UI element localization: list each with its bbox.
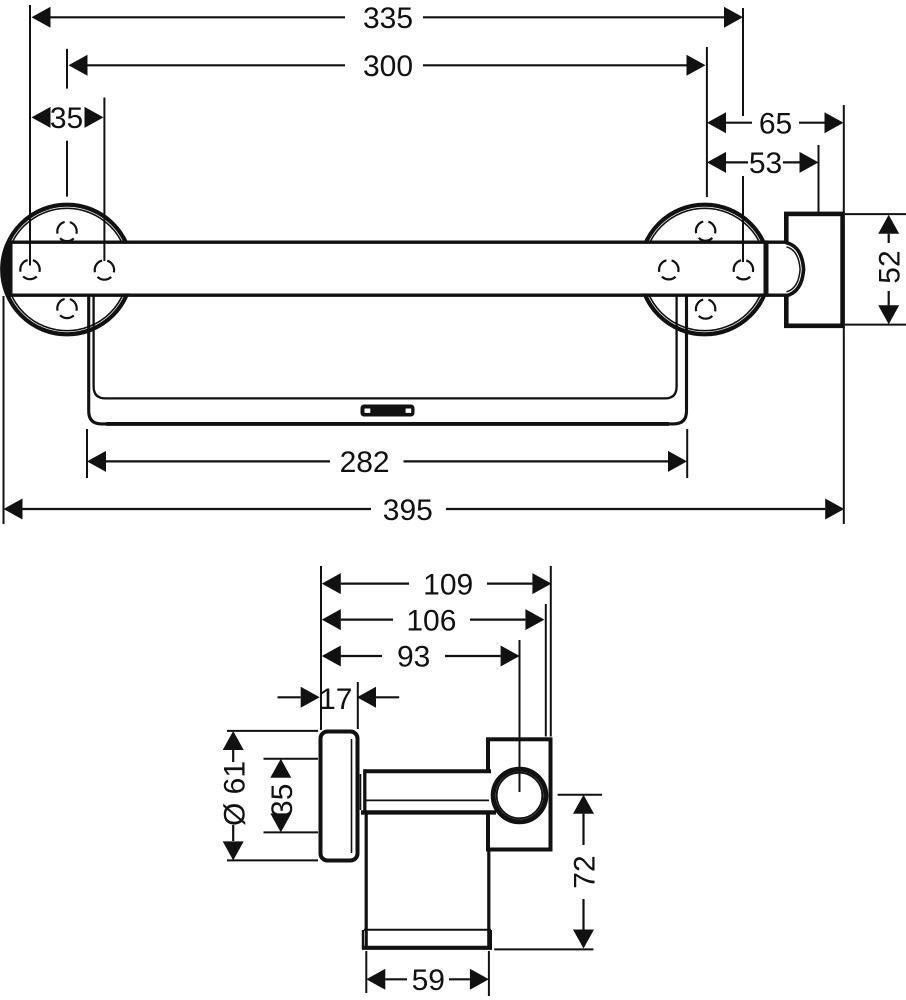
right flange screw holes [659, 221, 753, 318]
dimension 52 (vertical) [873, 215, 906, 324]
dome joint on wall plate [786, 243, 804, 297]
svg-text:282: 282 [340, 446, 390, 479]
dimension 53 [707, 147, 819, 180]
flange disc side view [321, 732, 358, 861]
svg-text:65: 65 [759, 107, 792, 140]
dimension 109 [322, 568, 552, 601]
dimension 395 [4, 494, 845, 527]
svg-text:395: 395 [383, 494, 433, 527]
svg-text:106: 106 [406, 604, 456, 637]
left wall flange [2, 205, 132, 335]
svg-text:335: 335 [363, 2, 413, 35]
svg-text:52: 52 [873, 250, 906, 283]
support tube side view [361, 769, 497, 814]
grab bar body [1, 241, 766, 297]
dimension 17 [278, 683, 400, 716]
disc-tube stem line [360, 774, 362, 810]
bar cross-section ring [493, 769, 546, 822]
dimension 35 (hole spacing) [32, 102, 104, 135]
dimension 300 [69, 50, 706, 83]
dimension 335 [32, 2, 744, 35]
bracket wall plate side view [488, 739, 551, 849]
svg-text:59: 59 [412, 964, 445, 997]
svg-text:35: 35 [266, 784, 299, 817]
extension lines side view [227, 566, 602, 996]
dimension 35 (side) [266, 759, 299, 833]
svg-text:300: 300 [363, 50, 413, 83]
dimension 65 [707, 107, 844, 140]
left flange screw holes [20, 222, 114, 318]
dimension 72 [569, 795, 602, 949]
rail clip plate [361, 405, 415, 417]
dimension 59 [366, 964, 489, 997]
svg-text:35: 35 [50, 102, 83, 135]
svg-text:72: 72 [569, 855, 602, 888]
dimension 282 [87, 446, 687, 479]
dimension diameter 61 [219, 731, 252, 860]
wall plate (52x52) [786, 214, 842, 326]
towel rail outer edge [89, 297, 110, 424]
bar neck at right end [764, 244, 786, 293]
dimension 106 [322, 604, 545, 637]
extension lines top view [4, 5, 906, 524]
cup / tumbler side view [362, 812, 492, 948]
bar outlines [9, 240, 788, 296]
svg-text:93: 93 [397, 641, 430, 674]
svg-text:53: 53 [749, 147, 782, 180]
svg-text:109: 109 [423, 568, 473, 601]
towel rail inner edge [94, 297, 677, 399]
dome joint fill [783, 242, 804, 296]
svg-text:Ø 61: Ø 61 [219, 761, 252, 826]
right wall flange [640, 205, 770, 335]
svg-text:17: 17 [319, 683, 352, 716]
dimension 93 [322, 641, 520, 674]
